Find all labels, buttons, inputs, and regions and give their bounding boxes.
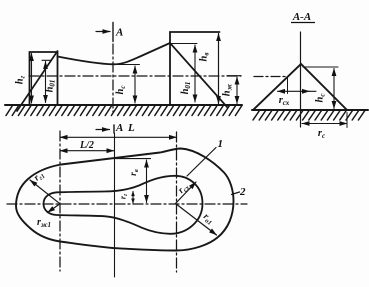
r_sx extension line: [287, 77, 289, 94]
plan: left axis vertical: [59, 131, 61, 271]
svg-text:2: 2: [239, 186, 246, 198]
svg-text:rж1: rж1: [37, 217, 51, 229]
ground hatching (section A-A): [253, 111, 365, 121]
svg-text:hc: hc: [315, 94, 327, 103]
dimension h_01 right tick: [171, 43, 198, 45]
svg-text:rc: rc: [318, 128, 325, 140]
section A-A axis: [300, 32, 302, 127]
dimension h_c: [134, 66, 136, 103]
centerline (elevation view): [29, 75, 241, 77]
dimension h_zh: [236, 77, 238, 104]
svg-text:hг: hг: [15, 75, 27, 84]
A-A underline: [291, 22, 315, 24]
section A-A triangle: [253, 64, 347, 110]
svg-text:L/2: L/2: [79, 140, 94, 151]
dimension r_sx: [278, 90, 310, 92]
plan: section marker A arrow: [96, 129, 110, 131]
ground hatching (elevation view): [6, 106, 242, 116]
svg-text:A: A: [115, 122, 123, 134]
dimension h_v: [218, 34, 220, 104]
svg-text:hв: hв: [199, 53, 211, 62]
left diagonal: [17, 51, 58, 111]
svg-text:rв: rв: [129, 169, 140, 176]
plan: horizontal centerline: [7, 203, 247, 205]
dimension h_g left: [31, 54, 33, 104]
svg-text:hж: hж: [222, 83, 234, 96]
dimension h_c tick: [113, 64, 140, 66]
dimension r_c: [302, 123, 347, 125]
svg-text:A-A: A-A: [292, 11, 311, 23]
dimension L: [60, 136, 177, 138]
dimension L/2: [60, 150, 114, 152]
dimension h_c (section) tick: [303, 66, 338, 68]
section line A (elevation): [112, 44, 114, 112]
dimension h_c (section): [333, 69, 335, 109]
svg-text:A: A: [115, 27, 123, 39]
dimension r_v: [146, 160, 148, 203]
svg-text:rсх: rсх: [279, 95, 290, 107]
outer contour: [16, 149, 234, 251]
profile curve to peak: [58, 43, 171, 64]
svg-text:rсх: rсх: [177, 181, 192, 196]
radius line to inner left bottom: [48, 204, 61, 213]
inner contour: [44, 176, 203, 234]
svg-text:L: L: [127, 122, 135, 134]
radius arrow r_o1: [176, 204, 217, 236]
radius arrow r_sx (plan): [176, 182, 197, 204]
radius arrow r_g1: [30, 180, 60, 204]
section A-A centerline: [254, 76, 288, 78]
dimension h_01 right: [194, 45, 196, 102]
plan: section line A: [114, 133, 116, 277]
dimension h_zh tick: [227, 75, 241, 77]
dimension h_01 left tick: [42, 59, 51, 61]
svg-text:hc: hc: [115, 86, 127, 95]
ground line (elevation view): [5, 104, 242, 106]
dimension h_01 left: [45, 62, 47, 103]
ground line (section A-A): [252, 109, 368, 111]
svg-text:h01: h01: [45, 80, 57, 93]
left block profile: [30, 52, 58, 105]
r_c extension line: [346, 113, 348, 128]
section marker A (elevation): [96, 31, 110, 33]
svg-text:h01: h01: [180, 82, 192, 95]
right diagonal: [170, 43, 228, 108]
dimension r_v tick: [116, 158, 151, 160]
dimension r_g: [132, 192, 134, 204]
plan: right axis vertical: [176, 132, 178, 272]
right block profile: [170, 32, 220, 105]
leader line for 1: [187, 148, 216, 177]
svg-text:1: 1: [218, 138, 224, 150]
svg-text:rг: rг: [119, 193, 130, 199]
leader line for 2: [232, 192, 240, 195]
